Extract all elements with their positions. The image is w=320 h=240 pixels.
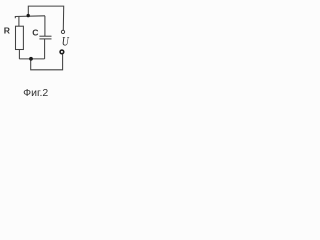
svg-text:U: U <box>62 35 70 48</box>
svg-text:C: C <box>32 27 38 37</box>
svg-text:Фиг.2: Фиг.2 <box>23 87 48 99</box>
svg-text:R: R <box>4 25 11 35</box>
